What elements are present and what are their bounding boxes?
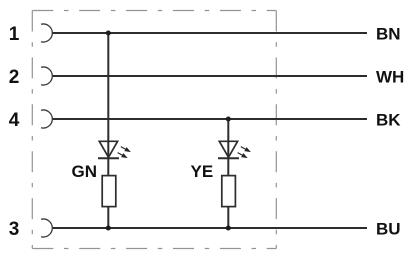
pin contact 4 (41, 110, 52, 128)
LED GN (D1) (98, 141, 119, 158)
svg-text:1: 1 (9, 24, 20, 45)
wire pin3 BU (52, 227, 367, 229)
resistor R2 (YE) (222, 176, 236, 207)
junction dot pin3/GN (106, 226, 111, 231)
wire pin2 WH (52, 75, 367, 77)
LED YE emission arrows (237, 145, 253, 161)
svg-text:GN: GN (72, 162, 98, 181)
svg-text:3: 3 (9, 219, 20, 240)
svg-text:YE: YE (191, 162, 214, 181)
svg-text:BN: BN (376, 24, 401, 43)
resistor R1 (GN) (102, 176, 116, 207)
LED GN emission arrows (117, 145, 133, 161)
pin contact 3 (41, 219, 52, 237)
junction dot pin4/YE (226, 117, 231, 122)
pin contact 1 (41, 24, 52, 42)
LED YE (D2) (218, 141, 239, 158)
svg-text:4: 4 (9, 110, 20, 131)
pin contact 2 (41, 67, 52, 85)
junction dot pin3/YE (226, 226, 231, 231)
svg-text:BK: BK (376, 110, 401, 129)
svg-text:BU: BU (376, 219, 401, 238)
wire pin1 BN (52, 32, 367, 34)
junction dot pin1/GN (106, 31, 111, 36)
wire YE branch vertical (227, 119, 229, 228)
svg-text:WH: WH (376, 67, 404, 86)
svg-text:2: 2 (9, 67, 20, 88)
wire GN branch vertical (107, 33, 109, 228)
wire pin4 BK (52, 118, 367, 120)
connector outline (dash-dot box) (32, 11, 276, 249)
